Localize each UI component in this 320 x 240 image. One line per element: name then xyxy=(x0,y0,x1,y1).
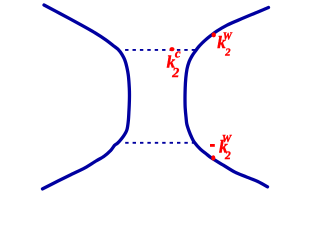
svg-text:2: 2 xyxy=(224,150,231,162)
svg-text:2: 2 xyxy=(171,66,179,81)
top dashed chord xyxy=(125,49,195,51)
left hyperbola branch (blue curve) xyxy=(43,5,130,189)
svg-text:W: W xyxy=(223,32,233,43)
bottom dashed chord xyxy=(125,142,194,144)
red point on right branch bottom (-k2W) xyxy=(211,155,215,160)
svg-text:W: W xyxy=(222,134,232,145)
red point on right branch top (k2W) xyxy=(212,32,216,37)
svg-text:c: c xyxy=(175,46,181,61)
red point on top chord (k2c) xyxy=(170,47,175,51)
label -k2W : minus sign xyxy=(210,144,215,147)
right hyperbola branch (blue curve) xyxy=(185,8,269,187)
svg-text:2: 2 xyxy=(224,48,231,59)
